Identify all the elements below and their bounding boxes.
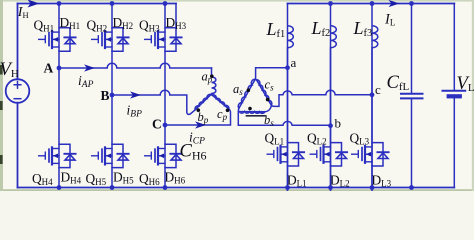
svg-text:B: B <box>101 88 110 103</box>
node c <box>370 92 375 97</box>
node rail Lf3 <box>370 1 375 6</box>
wire leg QL2 <box>330 48 332 188</box>
diode D_H6 <box>165 144 182 167</box>
dot b_s <box>248 107 252 111</box>
arrow I_L <box>389 0 400 7</box>
svg-text:C: C <box>152 117 162 132</box>
diode D_H5 <box>112 144 129 167</box>
transistor Q_H3 <box>145 31 165 48</box>
winding c_s <box>256 80 271 106</box>
node b <box>328 123 333 128</box>
diode D_L2 <box>331 143 348 166</box>
wire phase B <box>112 90 195 114</box>
source minus <box>14 98 21 100</box>
winding a_s <box>238 79 255 108</box>
dot c_s <box>266 98 270 102</box>
dot a_p <box>210 74 214 78</box>
wire leg C <box>164 4 166 188</box>
wire delta right corner to node c <box>265 90 372 112</box>
winding b_p <box>195 94 211 109</box>
inductor L_f1 <box>288 4 294 240</box>
wire rail corner to D_H3 <box>175 4 177 28</box>
node bottom rail x411.5 <box>409 185 414 190</box>
node top rail leg2 <box>110 1 115 6</box>
inductor L_f3 <box>372 4 378 240</box>
node a <box>285 65 290 70</box>
wire phase A <box>59 63 212 68</box>
node rail CfL <box>409 1 414 6</box>
wire top rail LV side <box>288 3 455 5</box>
transistor Q_H6 <box>145 147 165 164</box>
diode D_H4 <box>59 144 76 167</box>
dot a_s <box>247 88 251 92</box>
svg-text:a: a <box>291 55 297 70</box>
wire delta apex to node a <box>256 68 288 80</box>
node rail Lf2 <box>328 1 333 6</box>
node B <box>110 93 115 98</box>
node top rail leg1 <box>57 1 62 6</box>
transistor Q_H4 <box>39 147 59 164</box>
source plus <box>14 82 21 89</box>
node bottom rail x165 <box>163 185 168 190</box>
transistor Q_L1 <box>267 146 287 163</box>
arrow i_AP <box>84 64 95 71</box>
wire left vertical upper <box>17 4 19 80</box>
winding a_p <box>211 68 216 95</box>
wire CfL top <box>411 4 413 94</box>
battery V_L <box>443 90 466 92</box>
diode D_L1 <box>288 143 305 166</box>
node bottom rail x112 <box>110 185 115 190</box>
transistor Q_L2 <box>310 146 330 163</box>
arrow I_H <box>28 0 40 8</box>
wire VL top <box>453 4 455 91</box>
node bottom rail x372 <box>370 185 375 190</box>
wire Lf1 to node a <box>287 48 289 68</box>
node bottom rail x330.5 <box>328 185 333 190</box>
wire left vertical lower <box>17 103 19 188</box>
wire bottom rail <box>18 187 455 189</box>
wire phase C <box>165 109 231 125</box>
wire VL bottom <box>453 98 455 187</box>
winding c_p <box>212 95 229 109</box>
dot b_p <box>197 108 201 112</box>
source V_H <box>6 79 30 103</box>
node bottom rail x287.5 <box>285 185 290 190</box>
svg-text:c: c <box>375 82 381 97</box>
winding b_s <box>239 112 264 114</box>
wire top rail HV side <box>18 3 177 5</box>
node A <box>57 66 62 71</box>
transistor Q_H2 <box>92 31 112 48</box>
node C <box>163 123 168 128</box>
wire delta left corner to node b <box>238 108 330 125</box>
wire leg A <box>58 4 60 188</box>
wire CfL bottom <box>411 99 413 187</box>
inductor L_f2 <box>331 4 337 240</box>
svg-text:b: b <box>335 116 342 131</box>
node top rail leg3 <box>163 1 168 6</box>
battery V_L thick plate <box>447 94 462 98</box>
wire leg QL3 <box>371 48 373 188</box>
transistor Q_H1 <box>39 31 59 48</box>
svg-text:A: A <box>44 61 54 76</box>
arrow i_CP <box>195 121 206 128</box>
transistor Q_H5 <box>92 147 112 164</box>
winding b_s lower edge <box>247 115 266 117</box>
arrow i_BP <box>130 91 141 98</box>
diode D_H1 <box>59 28 76 51</box>
diode D_H3 <box>165 28 182 51</box>
capacitor C_fL <box>401 94 423 99</box>
wire leg B <box>111 4 113 188</box>
diode D_L3 <box>372 143 389 166</box>
dot c_p <box>226 109 230 113</box>
wire leg QL1 <box>287 68 289 188</box>
node bottom rail x59 <box>57 185 62 190</box>
transistor Q_L3 <box>352 146 372 163</box>
diode D_H2 <box>112 28 129 51</box>
